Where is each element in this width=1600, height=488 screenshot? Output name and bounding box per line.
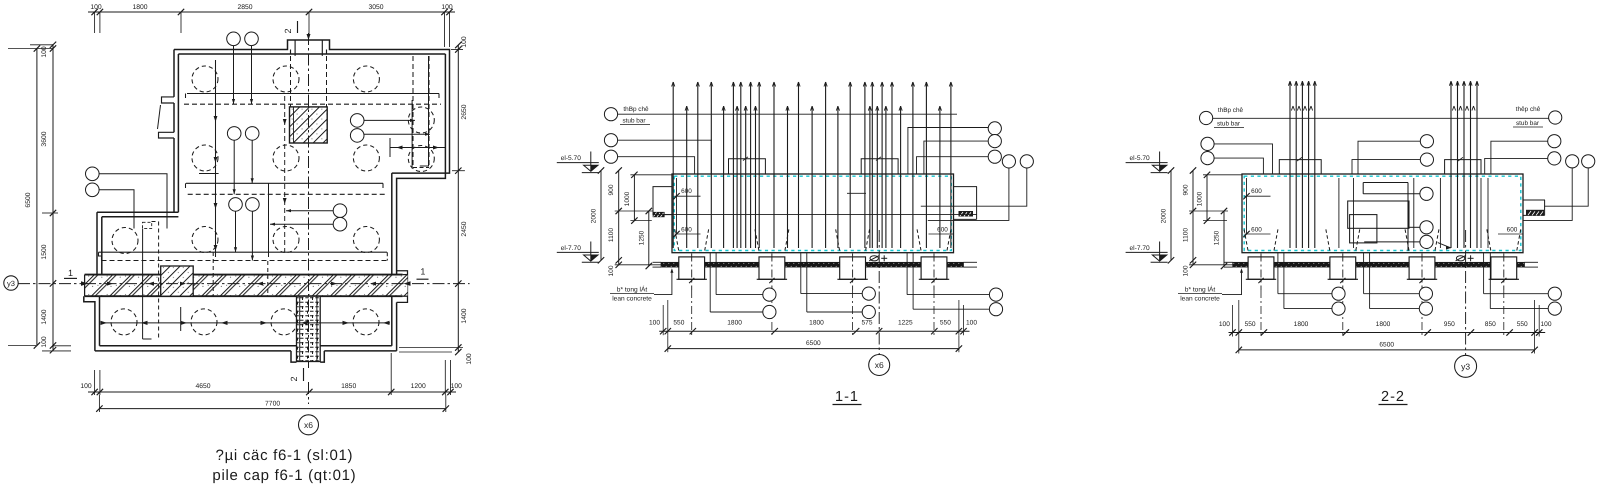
section band right cap (397, 271, 408, 303)
plan view: pile cap f6-1 plan (4, 4, 473, 484)
svg-text:850: 850 (1485, 321, 1496, 328)
pile plan P7 (273, 145, 299, 171)
svg-text:lean concrete: lean concrete (1180, 296, 1220, 303)
svg-text:1250: 1250 (1214, 230, 1221, 245)
svg-text:2850: 2850 (237, 4, 252, 11)
beam G hidden stubs crossing band (212, 252, 214, 296)
svg-text:100: 100 (461, 36, 468, 48)
2-2 pedestal table right (1445, 160, 1481, 174)
svg-text:1200: 1200 (411, 383, 426, 390)
svg-text:1100: 1100 (1183, 228, 1190, 243)
pile plan P16 (353, 309, 379, 335)
1-1 lean concrete strip (661, 262, 964, 267)
svg-text:pile cap f6-1 (qt:01): pile cap f6-1 (qt:01) (212, 467, 356, 484)
1-1 left bracket hatch block (653, 212, 665, 217)
wall bottom (100, 345, 297, 347)
svg-text:100: 100 (1540, 321, 1551, 328)
1-1 mid horizontal rebar line (653, 214, 977, 216)
svg-text:y3: y3 (1461, 361, 1470, 371)
1-1 dim 900 1100 100 chain (618, 171, 620, 265)
svg-text:6500: 6500 (806, 340, 821, 347)
pile plan P4 (408, 107, 434, 133)
2-2 dim 1250 chain (1223, 211, 1225, 266)
dim chain top (88, 11, 455, 13)
2-2 pile 4 embed flare dashed (1487, 229, 1491, 251)
svg-text:2450: 2450 (461, 221, 468, 236)
pile plan P1 (192, 66, 218, 92)
1-1 pile 2 embed flare dashed (755, 229, 759, 251)
wall left break jut (162, 97, 175, 103)
pile plan P8 (353, 145, 379, 171)
2-2 pile rebar callout pair 2 (1363, 253, 1365, 294)
wall outline inner top (178, 53, 445, 55)
column C3 brick pier below band (297, 296, 321, 361)
1-1 pile 4 below cap (921, 257, 947, 279)
svg-text:el-5.70: el-5.70 (561, 155, 581, 162)
svg-text:2: 2 (289, 376, 299, 381)
svg-text:1800: 1800 (809, 320, 824, 327)
pile plan P9 (112, 228, 138, 254)
1-1 right bracket (954, 186, 978, 188)
svg-text:100: 100 (966, 320, 977, 327)
svg-text:1400: 1400 (41, 309, 48, 324)
2-2 pile 3 below cap (1409, 257, 1435, 279)
svg-text:1100: 1100 (608, 228, 615, 243)
dim bottom overall 7700 (99, 408, 445, 410)
svg-text:6500: 6500 (1379, 342, 1394, 349)
gridline y3 dash-dot horizontal / section 1 cut line (18, 283, 84, 285)
2-2 pedestal table left (1279, 160, 1321, 174)
2-2 lean concrete strip (1233, 262, 1525, 267)
section band hatched concrete strip (85, 275, 403, 297)
svg-text:1: 1 (68, 268, 73, 278)
1-1 pile rebar callout pair 3 (906, 253, 908, 295)
2-2 mid callout circles above cap (1420, 135, 1433, 148)
grid bubble x6 plan (299, 415, 319, 435)
svg-text:6500: 6500 (25, 192, 32, 207)
svg-text:thBp chê: thBp chê (1218, 107, 1244, 114)
vertical rebar line with arrows (215, 60, 217, 257)
svg-text:1800: 1800 (132, 4, 147, 11)
1-1 pile 1 embed flare dashed (675, 229, 679, 251)
wall upstand inner lines (294, 40, 296, 56)
svg-text:100: 100 (80, 383, 92, 390)
1-1 right callout circles (988, 122, 1001, 135)
1-1 pile 3 below cap (840, 257, 866, 279)
1-1 grid centreline (878, 230, 880, 355)
grid bubble y3 (4, 276, 18, 290)
svg-text:stub bar: stub bar (622, 118, 646, 125)
pile plan P2 (273, 66, 299, 92)
svg-text:3600: 3600 (41, 131, 48, 146)
svg-text:575: 575 (861, 320, 872, 327)
svg-text:?µi cäc f6-1 (sl:01): ?µi cäc f6-1 (sl:01) (216, 447, 354, 464)
1-1 spiral marker at cap bottom (870, 256, 878, 261)
pile spacing line lower with arrows (101, 322, 390, 324)
2-2 nested bar rectangles (1363, 182, 1408, 184)
1-1 stub bar callout left top (604, 108, 617, 121)
2-2 bottom extension lines (1232, 305, 1234, 337)
second vertical rebar line (268, 183, 270, 257)
pile plan P12 (353, 227, 379, 253)
2-2 dim 2000 chain (1170, 171, 1172, 261)
wall bottom pier jut (291, 351, 297, 362)
svg-text:el-7.70: el-7.70 (561, 245, 581, 252)
svg-text:1800: 1800 (727, 320, 742, 327)
2-2 pile 2 embed flare dashed (1326, 229, 1330, 251)
1-1 dim chain bottom (659, 330, 969, 332)
svg-text:100: 100 (466, 353, 473, 365)
svg-text:b* tong lÁt: b* tong lÁt (1185, 286, 1216, 294)
1-1 stub bars long (672, 82, 674, 248)
svg-text:1850: 1850 (341, 383, 356, 390)
pile plan P14 (191, 309, 217, 335)
svg-text:100: 100 (649, 320, 660, 327)
dim left overall 6500 (36, 49, 38, 346)
1-1 bottom extension lines (662, 305, 664, 335)
svg-text:x6: x6 (875, 360, 884, 370)
svg-text:100: 100 (608, 265, 615, 276)
svg-text:3050: 3050 (368, 4, 383, 11)
column C1 hatched square (290, 107, 328, 143)
svg-text:lean concrete: lean concrete (612, 296, 652, 303)
beam B hidden middle (186, 182, 383, 184)
1-1 chain extension lines (615, 210, 653, 212)
1-1 pile 3 embed flare dashed (836, 229, 840, 251)
1-1 pile rebar callout pair 2 (800, 253, 802, 294)
1-1 dim 600 labels inside cap (676, 178, 678, 234)
pile plan P11 (273, 227, 299, 253)
gridline x6 dash-dot vertical (308, 33, 310, 368)
2-2 bar bundle right (1450, 81, 1452, 248)
svg-text:1400: 1400 (461, 308, 468, 323)
rebar callout pair R3 (229, 198, 243, 212)
svg-text:600: 600 (1251, 227, 1262, 234)
wall left step (97, 211, 178, 213)
2-2 dim overall 6500 (1239, 349, 1535, 351)
dim chain bottom (88, 391, 456, 393)
wall left lower (96, 212, 98, 274)
2-2 dim 600 labels inside cap (1246, 178, 1248, 234)
rebar callout pair R4 to right pile (350, 114, 364, 128)
svg-text:100: 100 (41, 336, 48, 348)
1-1 right bracket hatch block (959, 211, 974, 217)
1-1 dim 1000 chain (633, 175, 635, 221)
svg-text:100: 100 (41, 46, 48, 58)
1-1 dim overall 6500 (668, 348, 959, 350)
1-1 pedestal table right (861, 159, 898, 174)
svg-text:b* tong lÁt: b* tong lÁt (617, 286, 648, 294)
column C2 hatched on band (161, 266, 194, 296)
svg-text:thêp chê: thêp chê (1516, 106, 1541, 113)
2-2 right bracket hatch block (1526, 210, 1544, 216)
rebar callout pair R6 left (86, 167, 100, 181)
1-1 pile 1 below cap (679, 257, 705, 279)
1-1 pile rebar callout pair 1 (715, 253, 717, 295)
beam F hidden below beam C (142, 229, 144, 339)
2-2 pile rebar callout pair 1 (1277, 253, 1279, 294)
2-2 pile 1 embed flare dashed (1244, 229, 1248, 251)
1-1 bar bend segment (847, 192, 866, 194)
1-1 dim 1250 chain (648, 211, 650, 266)
rebar callout pair R1 top (227, 32, 241, 46)
pile plan P6 (192, 145, 218, 171)
1-1 dim 2000 chain (600, 171, 602, 261)
left extension lines (8, 48, 53, 50)
svg-text:1000: 1000 (1197, 191, 1204, 206)
wall outline outer (174, 40, 450, 173)
svg-text:stub bar: stub bar (1217, 121, 1241, 128)
pile column centreline dashed (284, 96, 286, 252)
svg-text:550: 550 (940, 320, 951, 327)
right extension lines (451, 49, 463, 51)
wall left upper outer (173, 50, 175, 97)
2-2 pile cap outline (1242, 174, 1523, 253)
svg-text:100: 100 (1183, 265, 1190, 276)
wall left upper inner (177, 54, 179, 212)
2-2 inner callout circles (1420, 187, 1433, 200)
svg-text:550: 550 (673, 320, 684, 327)
2-2 pile 4 below cap (1491, 257, 1517, 279)
2-2 left callout circles (1201, 137, 1214, 150)
1-1 pile 2 below cap (759, 257, 785, 279)
1-1 rebar cage cyan dashed (674, 176, 951, 250)
svg-text:900: 900 (608, 184, 615, 195)
svg-text:1800: 1800 (1294, 321, 1309, 328)
svg-text:1800: 1800 (1376, 321, 1391, 328)
pile plan P5 (408, 146, 434, 172)
svg-text:1000: 1000 (624, 191, 631, 206)
svg-text:stub bar: stub bar (1516, 120, 1540, 127)
pile plan P10 (192, 227, 218, 253)
rebar callout pair R2 (227, 127, 241, 141)
svg-text:el-5.70: el-5.70 (1130, 155, 1150, 162)
svg-text:thBp chê: thBp chê (623, 106, 649, 113)
svg-text:950: 950 (1444, 321, 1455, 328)
wall right lower outer (391, 173, 393, 275)
beam C hidden lower (99, 251, 388, 253)
pile plan P13 (111, 309, 137, 335)
rebar callout pair R5 (333, 204, 347, 218)
svg-text:1: 1 (420, 267, 425, 277)
2-2 pile 2 below cap (1330, 257, 1356, 279)
2-2 chain extension lines (1189, 210, 1228, 212)
svg-text:2000: 2000 (1161, 208, 1168, 223)
pile plan P15 (271, 309, 297, 335)
2-2 dim 900 1100 100 chain (1192, 171, 1194, 265)
dim chain left segments (52, 44, 54, 351)
svg-text:1500: 1500 (41, 244, 48, 259)
svg-text:el-7.70: el-7.70 (1130, 245, 1150, 252)
svg-text:1225: 1225 (898, 320, 913, 327)
svg-text:550: 550 (1245, 321, 1256, 328)
svg-text:600: 600 (1507, 227, 1518, 234)
dim chain right (457, 45, 459, 352)
pile offset dim right (390, 147, 445, 149)
2-2 stub bar callout left (1200, 111, 1213, 124)
2-2 pile rebar callout pair 3 (1483, 253, 1485, 294)
stub box at wall step (143, 222, 152, 228)
1-1 pile 4 embed flare dashed (917, 229, 921, 251)
section 1-1 view (557, 152, 1003, 406)
svg-text:2-2: 2-2 (1381, 389, 1405, 405)
2-2 dim chain bottom (1229, 332, 1546, 334)
1-1 pile cap outline (672, 174, 954, 253)
short tick line near rebar (199, 173, 219, 175)
1-1 stub bar callout left circles (604, 134, 617, 147)
svg-text:2650: 2650 (461, 104, 468, 119)
1-1 left bracket (653, 186, 673, 188)
band centreline arrows (107, 282, 113, 286)
svg-text:2000: 2000 (591, 208, 598, 223)
1-1 grid bubble (869, 355, 890, 376)
svg-text:100: 100 (451, 383, 463, 390)
wall right inner (397, 54, 446, 275)
svg-text:100: 100 (441, 4, 453, 11)
svg-text:7700: 7700 (265, 401, 280, 408)
svg-text:4650: 4650 (195, 383, 210, 390)
svg-text:1250: 1250 (638, 230, 645, 245)
svg-text:100: 100 (90, 4, 102, 11)
wall left band jut (84, 296, 95, 351)
2-2 bar bundle left (1289, 81, 1291, 248)
beam D hidden vertical right (412, 56, 414, 168)
2-2 spiral marker at cap bottom (1456, 256, 1464, 261)
2-2 right callout circles (1548, 135, 1561, 148)
svg-text:1-1: 1-1 (835, 389, 859, 405)
pile plan P3 (353, 66, 379, 92)
svg-text:600: 600 (937, 227, 948, 234)
svg-text:550: 550 (1517, 321, 1528, 328)
2-2 grid bubble (1455, 355, 1477, 377)
svg-text:900: 900 (1183, 184, 1190, 195)
section 2-2 view (1126, 152, 1562, 406)
svg-text:y3: y3 (7, 279, 15, 288)
2-2 mid verticals in cap (1338, 178, 1340, 248)
2-2 pile 3 embed flare dashed (1405, 229, 1409, 251)
2-2 rebar cage cyan dashed (1244, 176, 1521, 250)
2-2 bend arrow (1438, 243, 1451, 248)
1-1 stub bars short (686, 106, 688, 248)
2-2 right bracket (1523, 199, 1545, 201)
beam A hidden top (187, 93, 439, 95)
svg-text:600: 600 (1251, 188, 1262, 195)
2-2 dim 1000 chain (1206, 175, 1208, 221)
svg-text:100: 100 (1219, 321, 1230, 328)
svg-text:2: 2 (283, 28, 293, 33)
2-2 grid centreline (1465, 230, 1467, 355)
beam E hidden stub below upstand (290, 56, 292, 107)
1-1 pedestal table left (729, 159, 766, 174)
2-2 pile 1 below cap (1248, 257, 1274, 279)
svg-text:x6: x6 (304, 420, 313, 430)
